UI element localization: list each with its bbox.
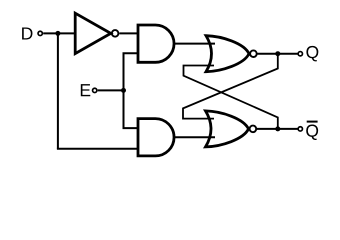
wire inverter output to top AND input 1 — [119, 32, 139, 34]
wire cross-coupling Q to bottom NOR input 1 — [183, 54, 278, 119]
node Q label — [306, 46, 318, 62]
NOR gate G4 (bottom) — [206, 111, 257, 147]
wire G2 output to bottom NOR input 2 — [174, 136, 216, 138]
terminal circle E — [93, 88, 97, 92]
terminal circle D — [38, 31, 42, 35]
node D label — [22, 27, 32, 39]
wire E to vertical — [98, 89, 124, 91]
wire NOR G3 output rail to Q — [258, 53, 299, 55]
wire G1 output to top NOR input 1 — [174, 43, 216, 45]
wire E to bottom AND input 1 — [123, 127, 140, 129]
wire D vertical down — [57, 33, 59, 148]
AND gate G2 (bottom) — [138, 119, 174, 156]
node Qbar label — [306, 124, 318, 140]
wire D to bottom AND input 2 — [57, 148, 139, 150]
wire NOR G4 output rail to Qbar — [257, 128, 298, 130]
junction dot E — [121, 88, 126, 93]
overbar of Qbar — [307, 121, 318, 123]
junction dot Qbar — [275, 126, 280, 131]
wire E to top AND input 2 — [123, 52, 140, 54]
junction dot D — [55, 31, 60, 36]
terminal circle Qbar — [298, 127, 302, 131]
AND gate G1 (top) — [138, 25, 174, 62]
junction dot Q — [275, 51, 280, 56]
wire cross-coupling Qbar to top NOR input 2 — [184, 66, 278, 129]
inverter U1 — [75, 13, 118, 53]
node E label — [81, 84, 90, 96]
wire E vertical — [123, 53, 125, 128]
wire D input to inverter — [43, 32, 74, 34]
NOR gate G3 (top) — [206, 36, 257, 72]
terminal circle Q — [298, 52, 302, 56]
